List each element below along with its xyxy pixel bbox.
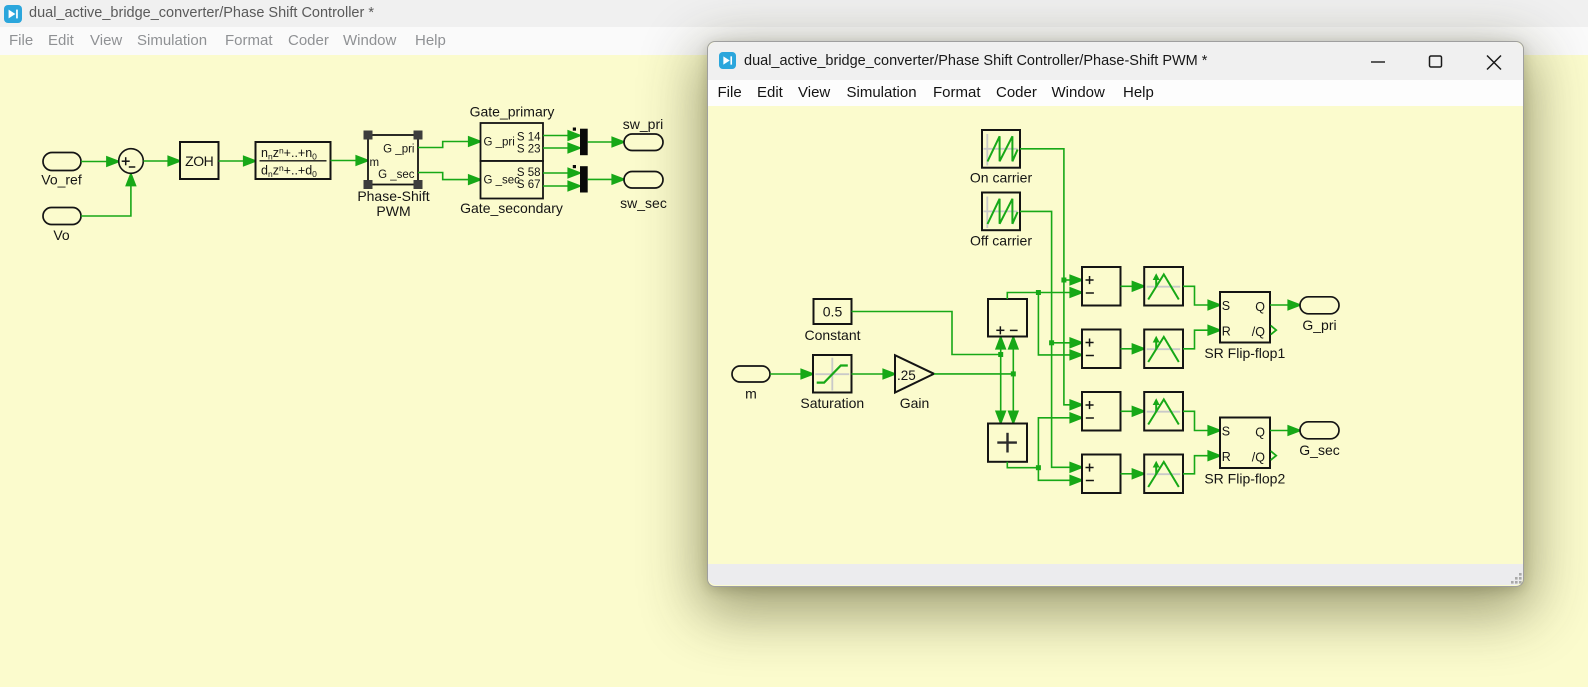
- subsystem Gate_primary: [481, 123, 544, 161]
- wire sum2 to comparator2: [1121, 344, 1145, 353]
- wire Gain to +- and + blocks: [934, 337, 1018, 424]
- wire Q2 to G_sec: [1270, 426, 1300, 435]
- subsystem Gate_secondary: [481, 161, 544, 199]
- summation junction: [119, 149, 144, 174]
- comparator block row1: [1144, 267, 1183, 306]
- wire Q1 to G_pri: [1270, 300, 1300, 309]
- input port m: [732, 366, 770, 382]
- wire sum3 to comparator3: [1121, 407, 1145, 416]
- output port sw_sec: [624, 172, 663, 189]
- wire S14 to mux1: [543, 131, 580, 140]
- sum block row4: [1082, 455, 1121, 494]
- wire mux1 to sw_pri: [588, 137, 625, 146]
- wire m to Saturation: [770, 369, 813, 378]
- mux1: [573, 128, 588, 156]
- wire comparator4 to SR Flip-flop2 R: [1183, 451, 1220, 474]
- wire sum4 to comparator4: [1121, 469, 1145, 478]
- wire sum1 to comparator1: [1121, 282, 1145, 291]
- comparator block row2: [1144, 330, 1183, 369]
- wire On carrier to comparator1 + and comparator3 +: [1020, 149, 1082, 410]
- sawtooth source On carrier: [982, 130, 1020, 168]
- wire Constant to +- and + blocks: [852, 312, 1006, 424]
- block Saturation: [813, 355, 852, 393]
- wire G_sec to Gate_secondary: [418, 173, 481, 185]
- wire Off carrier to comparator2 + and comparator4 +: [1020, 211, 1082, 472]
- sum block row1: [1082, 267, 1121, 306]
- wire S23 to mux1: [543, 143, 580, 152]
- sum block row2: [1082, 330, 1121, 369]
- wire adder output to comparator3 - and comparator4 -: [1007, 413, 1082, 485]
- sum block row3: [1082, 392, 1121, 431]
- block Constant 0.5: [814, 299, 852, 324]
- wire comparator1 to SR Flip-flop1 S: [1183, 286, 1220, 309]
- wire comparator2 to SR Flip-flop1 R: [1183, 326, 1220, 349]
- block discrete transfer function: [256, 142, 331, 179]
- block adder +: [988, 424, 1027, 462]
- wire Saturation to Gain: [852, 369, 896, 378]
- comparator block row3: [1144, 392, 1183, 431]
- output port G_pri: [1300, 297, 1339, 314]
- block SR Flip-flop1: [1220, 292, 1276, 343]
- child window: Phase-Shift PWM: [707, 41, 1524, 587]
- input port Vo_ref: [43, 153, 81, 171]
- wire G_pri to Gate_primary: [418, 137, 481, 148]
- output port sw_pri: [624, 134, 663, 151]
- comparator block row4: [1144, 455, 1183, 494]
- wire sum to ZOH: [143, 156, 180, 165]
- main window title bar: [0, 0, 1588, 27]
- input port Vo: [43, 208, 81, 225]
- mux2: [573, 165, 588, 193]
- main window menu bar: [0, 27, 1588, 55]
- wire comparator3 to SR Flip-flop2 S: [1183, 411, 1220, 435]
- block ZOH: [180, 142, 219, 179]
- output port G_sec: [1300, 422, 1339, 439]
- subsystem Phase-Shift PWM (selected): [364, 131, 423, 190]
- wire S67 to mux2: [543, 181, 580, 190]
- sawtooth source Off carrier: [982, 193, 1020, 231]
- wire Vo to sum: [81, 174, 136, 216]
- wire transfer function to PWM m input: [331, 156, 369, 165]
- wire S58 to mux2: [543, 168, 580, 177]
- block subtract +-: [988, 299, 1027, 337]
- wire subtract output to comparator1 - and comparator2 -: [1007, 288, 1082, 360]
- wire Vo_ref to sum: [81, 157, 119, 166]
- block SR Flip-flop2: [1220, 418, 1276, 469]
- wire ZOH to transfer function: [219, 156, 256, 165]
- wire mux2 to sw_sec: [588, 175, 625, 184]
- block Gain .25: [895, 355, 934, 392]
